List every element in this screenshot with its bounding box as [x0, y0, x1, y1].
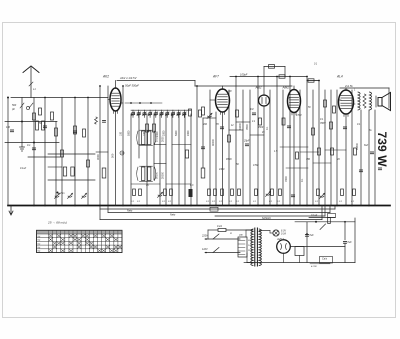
svg-text:Ca/s: Ca/s	[322, 258, 328, 261]
svg-text:5000: 5000	[175, 130, 178, 136]
svg-text:2000: 2000	[156, 131, 159, 137]
svg-text:25pF: 25pF	[243, 140, 250, 143]
svg-text:500: 500	[111, 153, 115, 158]
svg-text:AK2: AK2	[102, 75, 109, 79]
svg-text:0.1uF: 0.1uF	[20, 167, 27, 170]
svg-text:m: m	[230, 232, 232, 235]
svg-text:0.1uF: 0.1uF	[311, 214, 318, 217]
svg-text:4-700: 4-700	[311, 265, 317, 268]
svg-text:8uF: 8uF	[310, 234, 315, 237]
svg-text:50pF 500pF: 50pF 500pF	[125, 84, 139, 88]
svg-text:Netz: Netz	[170, 213, 176, 217]
svg-text:20000: 20000	[162, 171, 165, 179]
svg-text:AB2: AB2	[255, 86, 262, 90]
svg-text:0.3A: 0.3A	[281, 233, 286, 236]
svg-text:AL4: AL4	[336, 75, 343, 79]
svg-text:1M: 1M	[250, 108, 253, 111]
svg-text:2000: 2000	[187, 130, 190, 136]
svg-text:8uF: 8uF	[364, 144, 369, 147]
svg-text:Netz: Netz	[127, 209, 133, 213]
svg-text:4300: 4300	[219, 168, 225, 171]
svg-text:40000: 40000	[212, 138, 215, 146]
svg-text:0.5M: 0.5M	[296, 114, 301, 117]
svg-text:S(Netz): S(Netz)	[262, 216, 271, 220]
svg-text:240: 240	[238, 234, 243, 237]
svg-text:AZ11: AZ11	[276, 237, 284, 241]
svg-text:100: 100	[6, 126, 11, 129]
svg-text:110V: 110V	[202, 248, 208, 251]
svg-text:0.5M: 0.5M	[253, 164, 258, 167]
svg-text:AF7: AF7	[212, 75, 219, 79]
svg-text:500: 500	[12, 104, 17, 107]
svg-text:P600: P600	[246, 124, 249, 130]
svg-text:AK2 1.1/4.5V: AK2 1.1/4.5V	[119, 76, 138, 80]
svg-text:5000: 5000	[128, 130, 131, 136]
svg-text:AM2: AM2	[282, 86, 290, 90]
svg-text:4500: 4500	[258, 126, 264, 129]
svg-text:100: 100	[143, 131, 146, 136]
svg-text:25m: 25m	[59, 192, 65, 195]
svg-text:0.1: 0.1	[27, 144, 31, 147]
svg-text:350: 350	[306, 158, 311, 161]
svg-text:25 → 68 m(s): 25 → 68 m(s)	[47, 221, 67, 225]
svg-text:200: 200	[202, 123, 208, 126]
svg-text:100: 100	[120, 131, 123, 136]
svg-text:739 W: 739 W	[375, 132, 389, 168]
svg-text:50000: 50000	[156, 171, 159, 179]
svg-text:0.2A: 0.2A	[217, 225, 222, 228]
svg-text:41000: 41000	[239, 122, 242, 130]
svg-text:P600: P600	[226, 158, 232, 161]
svg-text:3000: 3000	[96, 154, 100, 160]
svg-text:41500: 41500	[356, 142, 359, 150]
svg-text:100pF: 100pF	[240, 73, 248, 77]
svg-text:2000: 2000	[163, 130, 166, 136]
svg-text:8uF: 8uF	[348, 241, 353, 244]
svg-text:2x1.5k: 2x1.5k	[344, 84, 353, 88]
svg-text:220V: 220V	[201, 235, 208, 238]
svg-text:350V: 350V	[320, 122, 326, 125]
svg-text:pF: pF	[11, 108, 15, 111]
svg-text:P400: P400	[285, 176, 288, 182]
svg-text:4V: 4V	[146, 184, 149, 187]
